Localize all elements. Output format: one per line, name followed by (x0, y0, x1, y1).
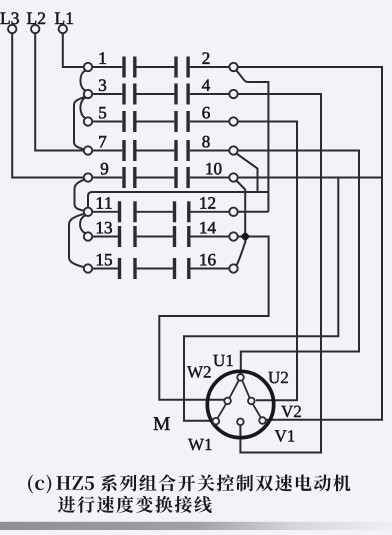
wire L1 to terminal 1 (63, 33, 84, 67)
wire terminal 8 branch to node J (236, 154, 257, 193)
terminal 9 (84, 173, 92, 181)
pin label 1 (100, 52, 106, 63)
terminal 14 (229, 232, 237, 240)
switch contact row 11/12 (92, 201, 229, 222)
net L2 input (27, 12, 45, 33)
wire terminal 2 branch down to terminal 12 (236, 70, 268, 212)
jumper terminal 11 to 15 (69, 214, 84, 267)
label U2 (268, 372, 287, 384)
switch contact row 1/2 (92, 57, 229, 78)
motor terminal U1 (237, 374, 244, 381)
wire terminal 2 to V2 along right edge (238, 67, 382, 420)
wire terminal 11 to node J (long horizontal) (88, 192, 268, 208)
label V1 (275, 430, 295, 442)
motor terminal V2 (259, 417, 266, 424)
net L1 input (55, 12, 73, 33)
label U1 (213, 355, 232, 366)
motor terminal V1 (237, 419, 244, 426)
jumper terminal 3 to 7 (74, 97, 85, 150)
terminal 8 (229, 146, 237, 154)
pin label 6 (202, 107, 209, 119)
pin label 9 (101, 163, 108, 175)
terminal 15 (84, 264, 92, 272)
switch contact row 3/4 (92, 84, 229, 105)
pin label 13 (97, 222, 112, 234)
jumper junction D to terminal 16 (237, 241, 246, 266)
net L3 input (1, 12, 19, 33)
caption line 1 (28, 474, 350, 493)
pin label 11 (97, 197, 112, 208)
wire L2 to terminal 7 (35, 33, 84, 150)
wire junction D to W2 (159, 237, 268, 400)
terminal 6 (229, 117, 237, 125)
wire terminal 8 to U1 (238, 151, 359, 375)
wire terminal 4 to V1 (238, 94, 321, 453)
pin label 7 (99, 136, 106, 147)
motor winding lines (217, 380, 261, 418)
terminal 2 (229, 63, 237, 71)
pin label 15 (97, 254, 112, 266)
jumper terminal 3 to 5 (80, 98, 85, 118)
jumper terminal 1 to 3 (80, 71, 85, 91)
pin label 8 (202, 136, 209, 148)
terminal 16 (229, 264, 237, 272)
wire terminal 6 to U2 (238, 122, 297, 401)
switch contact row 9/10 (92, 167, 229, 188)
terminal 3 (84, 90, 92, 98)
pin label 2 (203, 52, 210, 63)
terminal 4 (229, 90, 237, 98)
motor M stator circle (207, 371, 273, 437)
wire node W to W1 riser (184, 178, 338, 421)
terminal 7 (84, 146, 92, 154)
junction D filled diamond (240, 232, 250, 242)
pin label 4 (202, 80, 210, 91)
terminal 12 (229, 208, 237, 216)
label M (154, 417, 170, 430)
terminal 5 (84, 117, 92, 125)
pin label 12 (200, 197, 215, 208)
motor terminal W1 (213, 418, 220, 425)
pin label 16 (200, 254, 215, 266)
terminal 11 (84, 208, 92, 216)
wire terminal 10 branch to junction D (236, 181, 245, 233)
wire terminal 14 to junction D (238, 236, 241, 238)
motor terminal W2 (224, 398, 231, 405)
pin label 10 (206, 163, 221, 175)
pin label 5 (99, 107, 106, 119)
switch contact row 15/16 (92, 258, 229, 279)
motor terminal U2 (248, 398, 255, 405)
switch contact row 7/8 (92, 140, 229, 161)
wire terminal 12 stub (238, 211, 269, 213)
terminal 1 (84, 63, 92, 71)
switch contact row 5/6 (92, 111, 229, 132)
label W2 (187, 366, 211, 378)
label V2 (281, 406, 301, 418)
jumper terminal 9 to 11 (75, 180, 85, 211)
terminal 10 (229, 173, 237, 181)
bottom gray bar (0, 522, 392, 530)
terminal 13 (84, 232, 92, 240)
wire terminal 10 long horizontal (238, 177, 382, 179)
wire L3 to terminal 9 (12, 33, 84, 177)
caption line 2 (58, 496, 212, 513)
pin label 14 (200, 222, 215, 233)
pin label 3 (99, 79, 106, 91)
jumper terminal 11 to 13 (80, 215, 85, 233)
switch contact row 13/14 (92, 226, 229, 247)
label W1 (188, 439, 212, 451)
